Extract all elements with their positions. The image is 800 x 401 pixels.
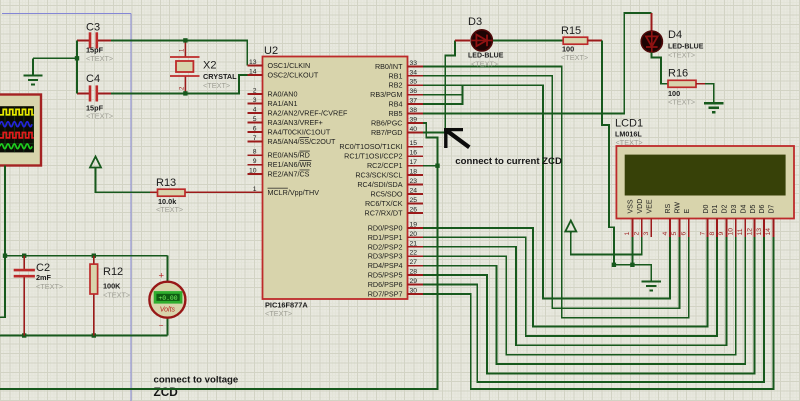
op: none; microcontroller U2 body	[263, 57, 408, 300]
svg-text:D3: D3	[731, 204, 738, 213]
svg-text:−: −	[159, 321, 164, 330]
svg-text:RC4/SDI/SDA: RC4/SDI/SDA	[357, 180, 402, 189]
svg-text:RE0/AN5/RD: RE0/AN5/RD	[268, 151, 310, 160]
wire RD3 to LCD D3	[423, 237, 736, 355]
svg-text:RC2/CCP1: RC2/CCP1	[367, 161, 403, 170]
pin 14 stub (LCD D7)	[772, 219, 774, 237]
svg-text:RS: RS	[665, 203, 672, 213]
wire RB6 to bottom-left ZCD rail	[0, 123, 438, 389]
junction C2 top	[22, 254, 26, 258]
pin 7 stub (U2 left)	[248, 141, 263, 143]
svg-text:2: 2	[634, 232, 641, 236]
svg-text:<TEXT>: <TEXT>	[203, 81, 230, 90]
svg-text:1: 1	[253, 186, 257, 193]
pin 33 stub (U2 right)	[408, 65, 423, 67]
svg-text:Volts: Volts	[160, 307, 176, 314]
svg-text:8: 8	[709, 232, 716, 236]
svg-text:VEE: VEE	[646, 199, 653, 213]
pin 27 stub (U2 right)	[408, 265, 423, 267]
svg-text:14: 14	[765, 228, 772, 236]
LCD LCD1 body	[616, 146, 794, 219]
wire scope to left rail	[0, 166, 5, 318]
wire bottom rail	[0, 335, 167, 337]
LCD screen	[625, 155, 786, 196]
junction R12 bottom	[92, 333, 96, 337]
wire R15 down to ground rail	[602, 40, 614, 264]
pin 1 stub (U2 left)	[248, 191, 263, 193]
wire RD4 to LCD D4	[423, 237, 745, 364]
svg-text:29: 29	[410, 278, 418, 285]
wire D4 cathode to R16	[652, 53, 669, 84]
pin 13 stub (U2 left)	[248, 65, 263, 67]
wire RB4 up to RB2 net	[423, 85, 463, 104]
wire RB5 to D4 anode	[423, 13, 652, 114]
pin 6 stub (LCD E)	[688, 219, 690, 237]
wire LCD VSS down	[631, 237, 633, 265]
wire RD1 to LCD D1	[423, 237, 717, 336]
svg-text:R16: R16	[668, 68, 688, 80]
svg-text:13: 13	[756, 228, 763, 236]
svg-text:<TEXT>: <TEXT>	[561, 53, 588, 62]
svg-text:38: 38	[410, 107, 418, 114]
wire voltmeter top	[166, 256, 168, 282]
svg-text:RD0/PSP0: RD0/PSP0	[368, 223, 403, 232]
pin 3 stub (U2 left)	[248, 103, 263, 105]
svg-text:<TEXT>: <TEXT>	[668, 98, 695, 107]
svg-text:11: 11	[737, 228, 744, 235]
junction X2 bottom	[183, 91, 187, 95]
svg-text:+: +	[159, 271, 165, 282]
svg-text:MCLR/Vpp/THV: MCLR/Vpp/THV	[268, 188, 320, 197]
waveform red square	[0, 133, 34, 138]
svg-text:40: 40	[410, 126, 418, 133]
junction rail left	[3, 254, 7, 258]
svg-text:D6: D6	[759, 204, 766, 213]
scope graticule	[0, 106, 34, 152]
svg-text:<TEXT>: <TEXT>	[156, 205, 183, 214]
wire RD7 to LCD D7	[423, 237, 774, 389]
pin 28 stub (U2 right)	[408, 274, 423, 276]
pin 3 stub (LCD VEE)	[650, 219, 652, 237]
pin 8 stub (LCD D1)	[716, 219, 718, 237]
wire RD5 to LCD D5	[423, 237, 755, 374]
svg-text:<TEXT>: <TEXT>	[86, 112, 113, 121]
wire to ground	[33, 57, 77, 59]
svg-text:100K: 100K	[103, 282, 121, 291]
ground (LCD)	[642, 281, 661, 290]
svg-text:39: 39	[410, 117, 418, 124]
resistor R16	[668, 80, 696, 87]
svg-text:ZCD: ZCD	[154, 385, 179, 399]
svg-text:12: 12	[746, 228, 753, 236]
svg-text:RA3/AN3/VREF+: RA3/AN3/VREF+	[268, 118, 323, 127]
svg-text:5: 5	[671, 232, 678, 236]
lead R15 right	[588, 39, 603, 41]
svg-text:RC0/T1OSO/T1CKI: RC0/T1OSO/T1CKI	[339, 142, 402, 151]
signal source box with waveforms	[0, 95, 41, 166]
svg-text:D5: D5	[750, 204, 757, 213]
svg-text:25: 25	[410, 197, 418, 204]
wire power to R13	[96, 168, 151, 193]
svg-text:19: 19	[410, 221, 418, 228]
svg-text:<TEXT>: <TEXT>	[86, 54, 113, 63]
pin 35 stub (U2 right)	[408, 84, 423, 86]
svg-text:<TEXT>: <TEXT>	[265, 309, 292, 318]
svg-text:RB4: RB4	[389, 100, 403, 109]
ground (top left)	[23, 75, 42, 84]
pin 22 stub (U2 right)	[408, 255, 423, 257]
pin 40 stub (U2 right)	[408, 131, 423, 133]
svg-text:21: 21	[410, 240, 418, 247]
svg-text:RB0/INT: RB0/INT	[375, 62, 403, 71]
svg-text:RC6/TX/CK: RC6/TX/CK	[365, 199, 403, 208]
pin 8 stub (U2 left)	[248, 154, 263, 156]
wire OSC2 net: C4/X2 to pin14	[111, 75, 248, 93]
blue selection box edge (vertical)	[130, 14, 132, 401]
pin 15 stub (U2 right)	[408, 146, 423, 148]
svg-text:RB2: RB2	[389, 81, 403, 90]
pin 4 stub (LCD RS)	[669, 219, 671, 237]
junction RB6/CCP1	[435, 164, 439, 168]
svg-text:D1: D1	[712, 204, 719, 213]
power terminal (MCLR pull)	[90, 157, 101, 170]
svg-text:37: 37	[410, 98, 418, 105]
wire RD0 to LCD D0	[423, 228, 708, 327]
wire RC2/CCP1 spur	[423, 165, 438, 167]
svg-text:R13: R13	[156, 177, 176, 189]
svg-text:RD2/PSP2: RD2/PSP2	[368, 242, 403, 251]
wire top rail	[5, 255, 167, 257]
pin 14 stub (U2 left)	[248, 74, 263, 76]
svg-text:RW: RW	[675, 202, 682, 214]
svg-text:RA2/AN2/VREF-/CVREF: RA2/AN2/VREF-/CVREF	[268, 109, 348, 118]
svg-text:24: 24	[410, 188, 418, 195]
svg-text:5: 5	[253, 116, 257, 123]
ground (R16)	[704, 103, 723, 112]
pin 11 stub (LCD D4)	[744, 219, 746, 237]
lead C4 right	[97, 92, 111, 94]
svg-text:RB6/PGC: RB6/PGC	[371, 119, 403, 128]
pin 1 stub (LCD VSS)	[631, 219, 633, 237]
lead R16 right	[696, 83, 705, 85]
svg-text:U2: U2	[264, 45, 278, 57]
svg-text:VDD: VDD	[637, 199, 644, 214]
svg-text:LED-BLUE: LED-BLUE	[468, 53, 504, 60]
svg-text:4: 4	[253, 107, 257, 114]
wire ZCD rail over text	[140, 388, 250, 390]
svg-text:16: 16	[410, 150, 418, 157]
svg-text:connect to current ZCD: connect to current ZCD	[455, 156, 562, 167]
svg-text:23: 23	[410, 178, 418, 185]
svg-text:RA4/T0CKI/C1OUT: RA4/T0CKI/C1OUT	[268, 128, 331, 137]
junction X2 top	[183, 38, 187, 42]
wire D3 to R15	[493, 39, 563, 41]
wire C3-C4 common	[76, 40, 78, 93]
svg-text:9: 9	[253, 158, 257, 165]
svg-text:2mF: 2mF	[36, 273, 52, 282]
blue selection box edge (top)	[2, 13, 131, 15]
svg-text:VSS: VSS	[628, 199, 635, 213]
svg-text:<TEXT>: <TEXT>	[471, 60, 498, 69]
pin 18 stub (U2 right)	[408, 174, 423, 176]
svg-text:RC7/RX/DT: RC7/RX/DT	[365, 209, 404, 218]
wire voltmeter bottom	[166, 318, 168, 335]
svg-text:LED-BLUE: LED-BLUE	[668, 44, 704, 51]
wire ground rail to ground	[614, 265, 651, 282]
capacitor C4	[90, 85, 97, 101]
wire RB1 to LCD RW	[423, 76, 680, 308]
svg-text:RA1/AN1: RA1/AN1	[268, 99, 298, 108]
wire ground drop	[32, 58, 34, 75]
svg-text:RB5: RB5	[389, 109, 403, 118]
pin 34 stub (U2 right)	[408, 75, 423, 77]
svg-text:34: 34	[410, 69, 418, 76]
junction C3/C4/ground	[75, 56, 79, 60]
junction ground rail left	[612, 263, 616, 267]
resistor R13	[158, 189, 186, 196]
lead R13 right to pin1	[185, 191, 248, 193]
svg-text:<TEXT>: <TEXT>	[36, 282, 63, 291]
pin 23 stub (U2 right)	[408, 184, 423, 186]
power terminal (LCD VDD)	[565, 221, 576, 234]
svg-text:D7: D7	[769, 204, 776, 213]
svg-text:RD3/PSP3: RD3/PSP3	[368, 252, 403, 261]
svg-text:RD4/PSP4: RD4/PSP4	[368, 261, 403, 270]
pin 12 stub (LCD D5)	[754, 219, 756, 237]
svg-text:C4: C4	[86, 73, 100, 85]
waveform blue sine	[0, 122, 32, 127]
wire RB0 to LCD E	[423, 66, 689, 317]
svg-text:D4: D4	[740, 204, 747, 213]
pin 24 stub (U2 right)	[408, 193, 423, 195]
svg-text:8: 8	[253, 149, 257, 156]
capacitor C3	[90, 32, 97, 48]
pin 9 stub (U2 left)	[248, 164, 263, 166]
svg-text:RD5/PSP5: RD5/PSP5	[368, 271, 403, 280]
svg-text:C3: C3	[86, 22, 100, 34]
svg-text:RD6/PSP6: RD6/PSP6	[368, 280, 403, 289]
crystal X2	[170, 40, 200, 93]
lead C3 left	[77, 39, 90, 41]
pin 29 stub (U2 right)	[408, 284, 423, 286]
junction VSS/ground rail	[630, 263, 634, 267]
svg-text:R15: R15	[561, 25, 581, 37]
pin 36 stub (U2 right)	[408, 94, 423, 96]
svg-text:RA5/AN4/SS/C2OUT: RA5/AN4/SS/C2OUT	[268, 137, 337, 146]
capacitor C2	[14, 256, 35, 336]
pin 10 stub (LCD D3)	[735, 219, 737, 237]
svg-text:RB3/PGM: RB3/PGM	[370, 90, 402, 99]
svg-text:<TEXT>: <TEXT>	[103, 291, 130, 300]
svg-text:CRYSTAL: CRYSTAL	[203, 72, 237, 81]
waveform yellow square	[0, 109, 34, 114]
svg-text:RD1/PSP1: RD1/PSP1	[368, 233, 403, 242]
svg-text:RE2/AN7/CS: RE2/AN7/CS	[268, 170, 310, 179]
lead D4 top	[651, 13, 653, 31]
svg-text:RD7/PSP7: RD7/PSP7	[368, 290, 403, 299]
svg-text:3: 3	[253, 97, 257, 104]
wire RB2 to LCD RS	[423, 85, 670, 298]
lead C4 left	[77, 92, 90, 94]
svg-text:36: 36	[410, 88, 418, 95]
lead R13 left	[150, 191, 158, 193]
svg-text:6: 6	[681, 232, 688, 236]
waveform green sine	[0, 144, 32, 149]
lead C3 right	[97, 39, 111, 41]
pin 30 stub (U2 right)	[408, 293, 423, 295]
wire R16 to ground	[705, 84, 714, 103]
svg-text:D0: D0	[703, 204, 710, 213]
svg-text:<TEXT>: <TEXT>	[668, 51, 695, 60]
svg-text:RB7/PGD: RB7/PGD	[371, 128, 403, 137]
pin 4 stub (U2 left)	[248, 112, 263, 114]
svg-text:6: 6	[253, 126, 257, 133]
svg-text:28: 28	[410, 269, 418, 276]
junction C2 bottom	[22, 333, 26, 337]
pin 16 stub (U2 right)	[408, 155, 423, 157]
svg-text:10: 10	[249, 168, 257, 175]
wire RB3 spur	[423, 94, 463, 96]
svg-text:1: 1	[624, 232, 631, 236]
pin 37 stub (U2 right)	[408, 103, 423, 105]
svg-text:RC1/T1OSI/CCP2: RC1/T1OSI/CCP2	[344, 152, 402, 161]
svg-text:14: 14	[249, 69, 257, 76]
pin 5 stub (U2 left)	[248, 122, 263, 124]
svg-text:7: 7	[253, 135, 257, 142]
pin 9 stub (LCD D2)	[725, 219, 727, 237]
pin 21 stub (U2 right)	[408, 246, 423, 248]
svg-text:10: 10	[728, 228, 735, 236]
svg-text:17: 17	[410, 159, 418, 166]
svg-text:connect to voltage: connect to voltage	[154, 375, 239, 386]
svg-text:RA0/AN0: RA0/AN0	[268, 90, 298, 99]
pin 17 stub (U2 right)	[408, 165, 423, 167]
svg-text:27: 27	[410, 259, 418, 266]
svg-text:RC3/SCK/SCL: RC3/SCK/SCL	[355, 171, 402, 180]
svg-text:E: E	[684, 209, 691, 214]
pin 39 stub (U2 right)	[408, 122, 423, 124]
svg-text:D2: D2	[722, 204, 729, 213]
svg-text:33: 33	[410, 60, 418, 67]
pin 10 stub (U2 left)	[248, 173, 263, 175]
svg-text:RE1/AN6/WR: RE1/AN6/WR	[268, 160, 312, 169]
svg-text:26: 26	[410, 207, 418, 214]
svg-text:D3: D3	[468, 16, 482, 28]
wire RB7 to D3	[423, 40, 455, 132]
resistor R15	[563, 37, 587, 44]
svg-text:LCD1: LCD1	[615, 118, 643, 130]
svg-text:4: 4	[662, 232, 669, 236]
pin 19 stub (U2 right)	[408, 227, 423, 229]
wire RD2 to LCD D2	[423, 237, 727, 345]
pin 6 stub (U2 left)	[248, 131, 263, 133]
svg-text:22: 22	[410, 250, 418, 257]
svg-text:13: 13	[249, 59, 257, 66]
pin 26 stub (U2 right)	[408, 212, 423, 214]
junction R12 top	[92, 254, 96, 258]
pin 38 stub (U2 right)	[408, 113, 423, 115]
svg-text:20: 20	[410, 231, 418, 238]
resistor R12	[93, 256, 95, 336]
svg-text:9: 9	[718, 232, 725, 236]
pin 25 stub (U2 right)	[408, 203, 423, 205]
svg-text:OSC2/CLKOUT: OSC2/CLKOUT	[268, 71, 319, 80]
svg-text:35: 35	[410, 79, 418, 86]
svg-text:18: 18	[410, 169, 418, 176]
pin 2 stub (LCD VDD)	[641, 219, 643, 237]
pin 20 stub (U2 right)	[408, 236, 423, 238]
svg-text:3: 3	[643, 232, 650, 236]
svg-text:+0.00: +0.00	[158, 295, 177, 302]
svg-text:X2: X2	[203, 60, 216, 72]
svg-text:30: 30	[410, 288, 418, 295]
svg-text:RC5/SDO: RC5/SDO	[371, 190, 403, 199]
svg-text:15: 15	[410, 140, 418, 147]
lead D3 left	[455, 39, 470, 41]
pin 5 stub (LCD RW)	[678, 219, 680, 237]
LED D3	[471, 30, 492, 51]
svg-text:RB1: RB1	[389, 71, 403, 80]
svg-text:OSC1/CLKIN: OSC1/CLKIN	[268, 61, 311, 70]
pin 13 stub (LCD D6)	[763, 219, 765, 237]
svg-text:D4: D4	[668, 29, 682, 41]
wire RD6 to LCD D6	[423, 237, 764, 382]
svg-text:2: 2	[253, 88, 257, 95]
svg-text:7: 7	[699, 232, 706, 236]
svg-text:R12: R12	[103, 266, 123, 278]
pin 7 stub (LCD D0)	[707, 219, 709, 237]
wire power to LCD VDD	[571, 232, 642, 255]
mouse cursor arrow	[444, 128, 469, 148]
wire OSC1 net: C3/X2 to pin13	[111, 40, 247, 65]
pin 2 stub (U2 left)	[248, 93, 263, 95]
